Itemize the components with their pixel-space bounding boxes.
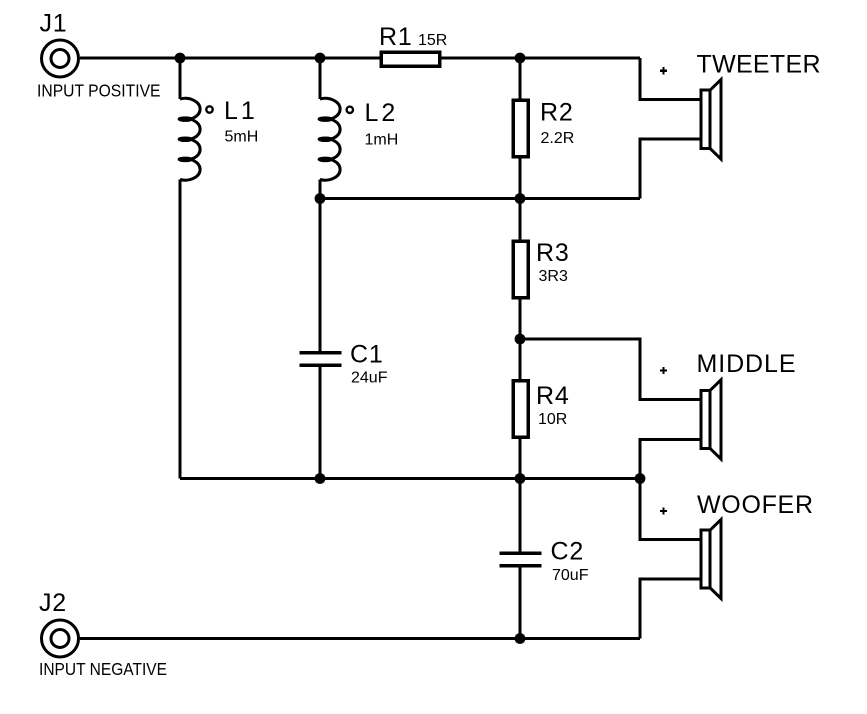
svg-text:L1: L1 [224,97,258,125]
wire R2 bottom lead [519,154,522,199]
node top rail / L1 [175,53,186,64]
wire middle positive lead [520,339,701,400]
wire L2 top lead [319,58,322,99]
svg-text:3R3: 3R3 [539,268,568,285]
wire R4 bottom lead [519,434,522,479]
svg-text:5mH: 5mH [225,129,259,146]
wire C2 bottom lead [519,567,522,639]
wire C2 top lead [519,479,522,552]
svg-text:1mH: 1mH [365,132,399,149]
speaker WOOFER [701,520,721,599]
speaker TWEETER [701,80,721,160]
speaker MIDDLE [701,380,721,459]
resistor R2 [513,100,528,157]
wire L1 top lead [179,58,182,99]
wire middle negative lead [640,439,701,478]
svg-text:R2: R2 [540,99,574,127]
svg-text:INPUT POSITIVE: INPUT POSITIVE [37,80,161,100]
inductor L2 [320,98,340,180]
inductor L2 cusp tongues [319,117,333,161]
wire woofer negative lead [640,579,701,639]
node mid rail / L2-C1 [315,193,326,204]
wire C1 bottom lead [319,367,322,479]
connector J1 [42,40,79,77]
resistor R1 [381,52,440,66]
capacitor C2 [500,553,542,566]
inductor L2 polarity dot [347,107,353,113]
node lower rail / C1 [315,473,326,484]
svg-text:WOOFER: WOOFER [697,491,813,519]
inductor L1 polarity dot [206,106,212,112]
wire R3 top lead [519,199,522,245]
wire R2 top lead [519,58,522,103]
node mid rail / R2-R3 [515,193,526,204]
node R3-R4 / middle positive [515,334,526,345]
svg-text:MIDDLE: MIDDLE [697,350,796,378]
wire tweeter negative lead [640,139,701,198]
svg-text:24uF: 24uF [351,370,388,387]
wire lower rail [180,477,640,480]
wire woofer positive lead [640,479,701,540]
wire top rail left (J1 to R1) [80,57,384,60]
svg-text:70uF: 70uF [552,567,589,584]
node top rail / R2 [515,53,526,64]
node lower rail / woofer positive [635,473,646,484]
svg-text:J2: J2 [39,589,67,617]
node top rail / L2 [315,53,326,64]
svg-text:R1: R1 [379,23,413,51]
wire mid rail [320,197,640,200]
svg-text:15R: 15R [418,32,447,49]
svg-text:C1: C1 [350,341,384,369]
inductor L1 [180,98,200,180]
node lower rail / R4-C2 [515,473,526,484]
inductor L1 cusp tongues [179,117,193,161]
wire L2 bottom lead [319,180,322,199]
node bottom rail / C2 [515,633,526,644]
connector J2 [42,620,79,657]
svg-text:R3: R3 [536,239,570,267]
svg-text:2.2R: 2.2R [541,130,575,147]
wire tweeter positive lead [640,58,701,99]
wire top rail right (R1 to tweeter corner) [437,57,640,60]
svg-text:INPUT NEGATIVE: INPUT NEGATIVE [39,659,167,679]
wire C1 top lead [319,199,322,352]
capacitor C1 [300,353,342,365]
svg-text:C2: C2 [551,538,585,566]
wire L1 bottom lead [179,180,182,479]
resistor R3 [513,241,528,297]
wire R3 bottom lead [519,295,522,339]
svg-text:10R: 10R [538,411,567,428]
svg-text:L2: L2 [365,99,399,127]
resistor R4 [513,381,528,438]
wire bottom rail (J2 to woofer) [80,637,640,640]
svg-text:TWEETER: TWEETER [697,51,821,79]
svg-text:R4: R4 [536,382,570,410]
wire R4 top lead [519,339,522,384]
svg-text:J1: J1 [40,10,68,38]
